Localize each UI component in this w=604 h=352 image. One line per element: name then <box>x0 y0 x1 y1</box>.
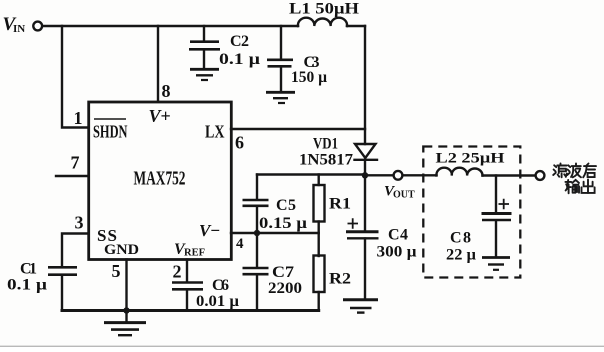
svg-text:LX: LX <box>205 122 225 142</box>
svg-text:IN: IN <box>13 23 25 35</box>
svg-text:L1 50µH: L1 50µH <box>289 1 360 18</box>
svg-text:2200: 2200 <box>268 280 302 297</box>
svg-text:1: 1 <box>74 108 83 128</box>
svg-text:VD1: VD1 <box>313 136 338 153</box>
svg-text:150 µ: 150 µ <box>291 69 327 86</box>
svg-text:C6: C6 <box>212 277 229 294</box>
svg-text:REF: REF <box>184 248 205 259</box>
svg-text:1N5817: 1N5817 <box>299 152 353 169</box>
svg-text:0.15 µ: 0.15 µ <box>259 215 307 232</box>
svg-text:R1: R1 <box>329 196 351 213</box>
svg-text:SHDN: SHDN <box>93 122 128 142</box>
svg-text:OUT: OUT <box>393 190 415 201</box>
svg-text:2: 2 <box>173 262 182 282</box>
svg-text:V−: V− <box>199 221 220 240</box>
svg-text:GND: GND <box>104 242 139 258</box>
svg-text:7: 7 <box>71 153 80 173</box>
svg-text:C4: C4 <box>388 227 408 244</box>
svg-text:C1: C1 <box>20 261 37 278</box>
svg-text:22 µ: 22 µ <box>446 247 476 264</box>
svg-text:4: 4 <box>236 236 244 252</box>
svg-text:0.1 µ: 0.1 µ <box>7 277 47 294</box>
svg-text:L2 25µH: L2 25µH <box>436 151 505 167</box>
svg-text:C7: C7 <box>272 264 294 281</box>
svg-text:0.1 µ: 0.1 µ <box>219 51 260 68</box>
svg-text:3: 3 <box>75 213 84 233</box>
svg-text:6: 6 <box>235 133 244 153</box>
svg-text:C2: C2 <box>230 33 249 50</box>
svg-text:8: 8 <box>162 81 171 101</box>
svg-text:V+: V+ <box>149 106 171 126</box>
svg-text:MAX752: MAX752 <box>134 168 186 190</box>
svg-text:C5: C5 <box>276 197 296 214</box>
svg-text:R2: R2 <box>329 271 351 288</box>
svg-text:C8: C8 <box>450 230 471 247</box>
svg-text:0.01 µ: 0.01 µ <box>196 293 239 310</box>
svg-text:300 µ: 300 µ <box>377 244 417 261</box>
svg-text:5: 5 <box>112 261 121 281</box>
